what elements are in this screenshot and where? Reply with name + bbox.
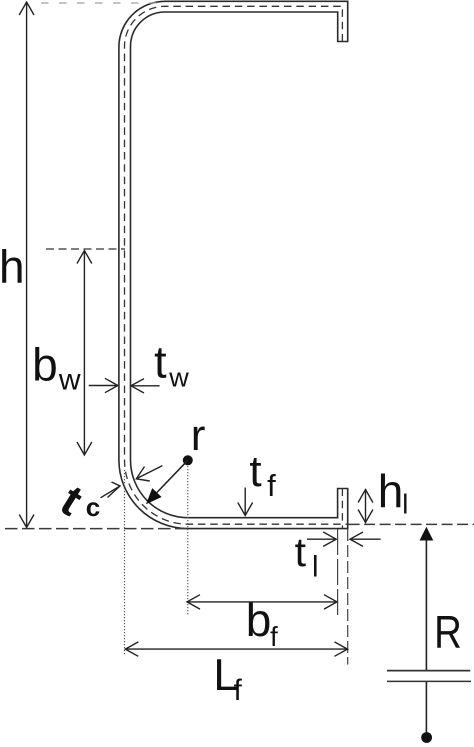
svg-text:b: b	[32, 339, 58, 391]
lip right extension dashed	[347, 529, 349, 665]
bottom lip centerline	[341, 489, 343, 529]
svg-text:f: f	[267, 468, 276, 503]
web center extension dotted	[124, 470, 126, 655]
svg-text:h: h	[0, 240, 25, 292]
b_w dimension line	[77, 251, 92, 456]
t_w arrows	[89, 378, 160, 393]
svg-text:t: t	[295, 529, 307, 575]
svg-text:t: t	[154, 336, 167, 387]
t_f arrow	[238, 488, 253, 516]
svg-text:f: f	[234, 674, 243, 707]
t_c arrow inner	[136, 466, 162, 481]
top reference dashed line	[41, 2, 166, 4]
R axis arrow	[425, 529, 427, 670]
h dimension line	[19, 2, 34, 528]
svg-text:w: w	[168, 363, 189, 393]
R axis lower segment	[425, 681, 427, 732]
r center dot	[183, 455, 193, 465]
r radius arrow	[157, 460, 188, 492]
svg-text:b: b	[246, 594, 272, 646]
svg-text:R: R	[434, 606, 462, 658]
axis line right	[349, 523, 474, 525]
profile centerline	[125, 6, 348, 524]
b_w reference dashed line	[46, 248, 125, 250]
t_l arrows	[307, 532, 381, 546]
t_c arrow outer	[101, 482, 121, 498]
h_l dimension line	[358, 490, 373, 523]
svg-text:r: r	[191, 411, 206, 460]
profile outline	[119, 1, 348, 528]
lip left extension dashed	[337, 529, 339, 617]
svg-text:l: l	[312, 551, 319, 584]
r center extension dotted	[187, 466, 189, 616]
b_f dimension line	[187, 595, 337, 609]
svg-text:h: h	[378, 465, 404, 517]
R axis break upper line	[387, 670, 470, 672]
R axis break lower line	[387, 680, 471, 682]
R axis end dot	[421, 732, 432, 743]
axis line left	[5, 528, 190, 530]
svg-text:t: t	[249, 447, 261, 496]
svg-text:l: l	[402, 488, 408, 519]
L_f dimension line	[125, 642, 347, 656]
svg-text:w: w	[58, 363, 81, 396]
svg-text:f: f	[270, 621, 278, 652]
svg-text:c: c	[86, 492, 100, 522]
